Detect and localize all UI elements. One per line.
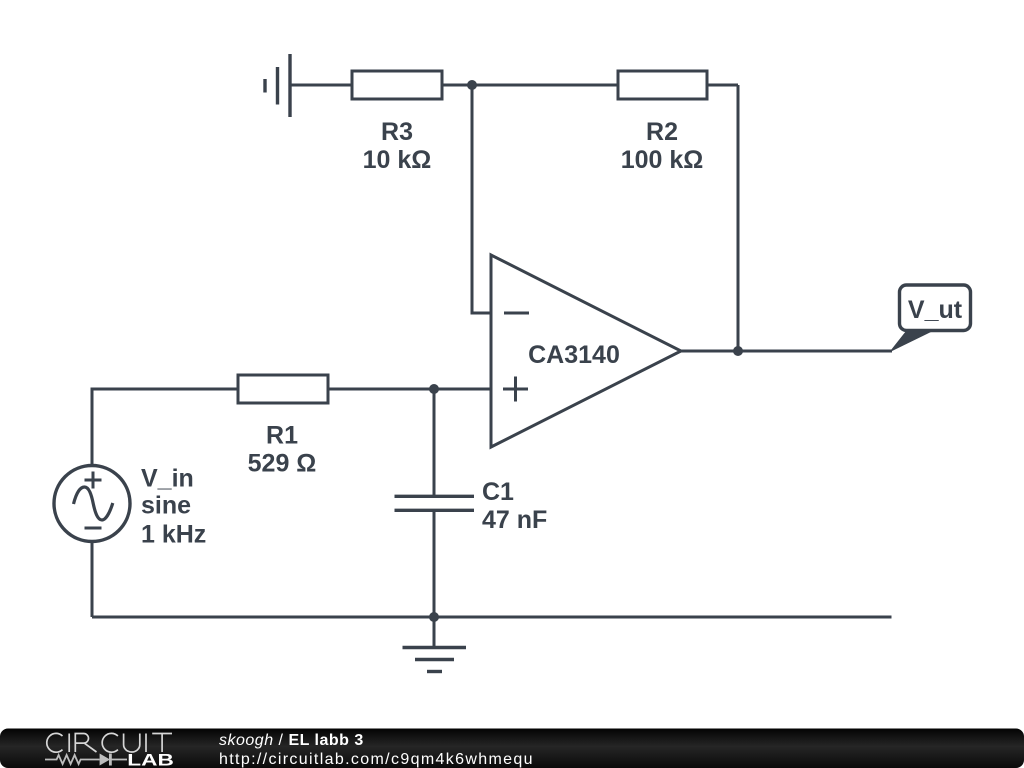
svg-text:C1: C1 [482, 478, 514, 506]
svg-text:LAB: LAB [127, 751, 174, 768]
svg-text:V_ut: V_ut [908, 296, 963, 324]
pin plus (non-inverting input) [503, 377, 528, 402]
wire op-amp output [681, 350, 892, 353]
svg-text:R3: R3 [381, 118, 413, 146]
node output junction [733, 346, 743, 356]
svg-text:100 kΩ: 100 kΩ [621, 146, 704, 174]
svg-text:47 nF: 47 nF [482, 506, 547, 534]
op-amp U1 body [491, 255, 681, 447]
svg-text:R1: R1 [266, 422, 298, 450]
footer bar [0, 729, 1024, 768]
wire bottom rail to GND2 [433, 617, 436, 648]
svg-text:http://circuitlab.com/c9qm4k6w: http://circuitlab.com/c9qm4k6whmequ [219, 751, 534, 768]
logo CIRCUIT wordmark [47, 733, 172, 752]
wire R2 to feedback corner [707, 84, 738, 87]
pin minus (inverting input) [504, 312, 529, 315]
source V1 sine wave [74, 487, 113, 520]
wire node A to inverting input [472, 85, 491, 313]
wire R1 to plus input [328, 388, 491, 391]
flag V_ut box [900, 285, 971, 331]
flag V_ut tail [889, 331, 933, 353]
svg-text:1 kHz: 1 kHz [141, 521, 206, 549]
source V1 circle [54, 466, 130, 542]
wire C1 to bottom rail [433, 510, 436, 617]
ground GND2 (bottom) [403, 648, 467, 672]
wire V1 bottom [91, 542, 94, 618]
wire R3 to R2 [442, 84, 618, 87]
resistor R3 [352, 71, 442, 99]
wire node B to C1 [433, 389, 436, 496]
svg-text:V_in: V_in [141, 465, 194, 493]
svg-text:529 Ω: 529 Ω [248, 450, 317, 478]
svg-text:skoogh / EL labb 3: skoogh / EL labb 3 [219, 732, 364, 749]
svg-text:sine: sine [141, 492, 191, 520]
svg-text:CA3140: CA3140 [528, 341, 620, 369]
node A junction [467, 80, 477, 90]
logo diode triangle [100, 754, 110, 766]
resistor R1 [238, 375, 328, 403]
source V1 minus mark [85, 527, 102, 530]
node C junction (ground rail) [429, 612, 439, 622]
wire bottom rail [92, 616, 892, 619]
resistor R2 [618, 71, 707, 99]
wire GND1 to R3 [290, 84, 352, 87]
ground GND1 (top-left, rotated) [265, 54, 290, 117]
wire V1 to R1 [92, 389, 238, 466]
source V1 plus mark [85, 472, 102, 489]
capacitor C1 [395, 496, 475, 510]
svg-text:R2: R2 [646, 118, 678, 146]
svg-text:10 kΩ: 10 kΩ [363, 146, 432, 174]
logo resistor-diode symbol [45, 754, 127, 766]
wire feedback vertical [737, 85, 740, 351]
node B junction (plus input / C1) [429, 384, 439, 394]
